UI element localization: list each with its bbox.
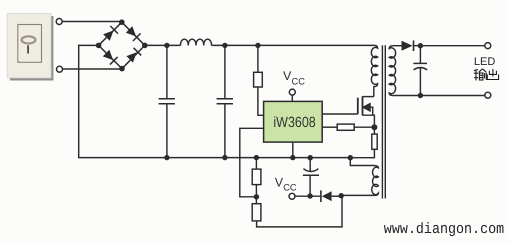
svg-text:iW3608: iW3608 bbox=[273, 115, 315, 131]
svg-text:LED: LED bbox=[474, 56, 495, 68]
svg-text:www.diangon.com: www.diangon.com bbox=[384, 221, 504, 238]
svg-text:CC: CC bbox=[292, 76, 306, 86]
svg-text:CC: CC bbox=[283, 183, 297, 193]
